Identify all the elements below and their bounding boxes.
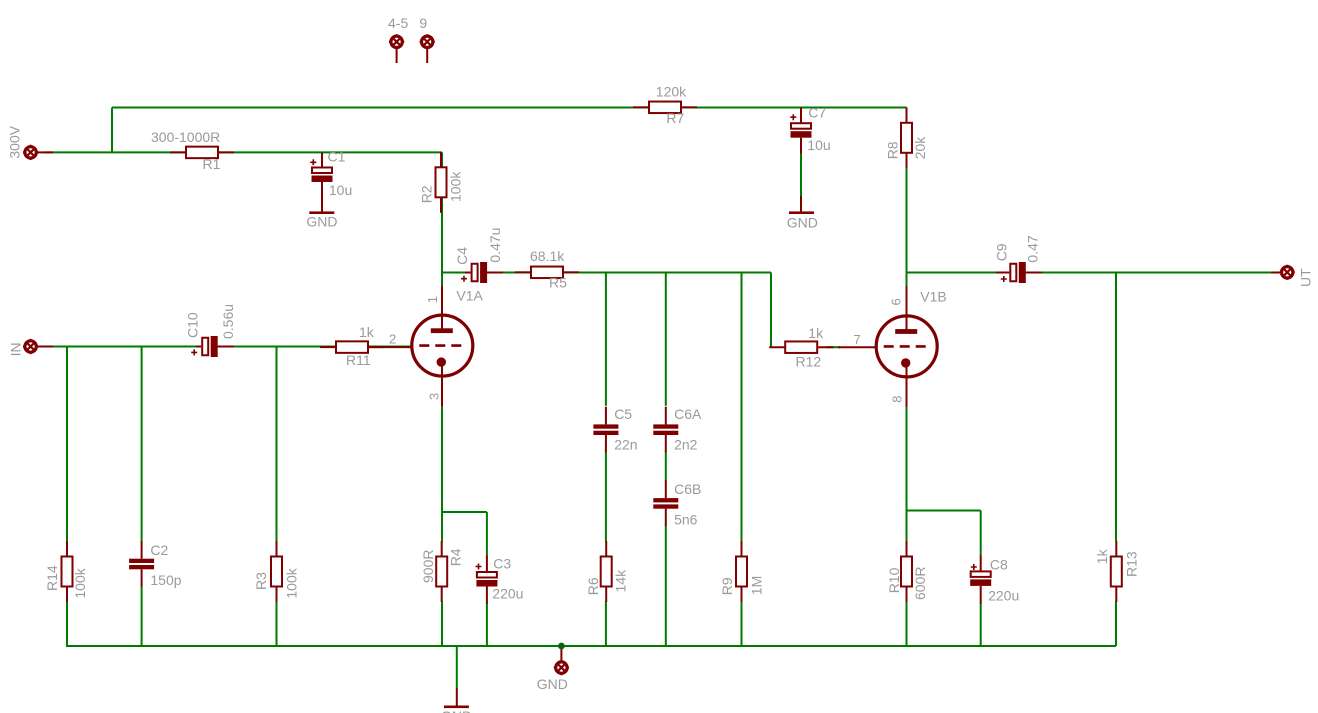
svg-text:22n: 22n (614, 437, 637, 453)
svg-text:C5: C5 (614, 406, 632, 422)
svg-text:1M: 1M (749, 576, 765, 595)
svg-text:IN: IN (8, 342, 24, 356)
svg-text:R12: R12 (796, 353, 822, 369)
svg-text:2: 2 (389, 332, 396, 347)
svg-text:1: 1 (425, 296, 440, 303)
svg-text:R10: R10 (886, 567, 902, 593)
svg-text:4-5: 4-5 (388, 15, 408, 31)
svg-text:1k: 1k (359, 324, 375, 340)
svg-text:R14: R14 (44, 565, 60, 591)
svg-text:R6: R6 (585, 577, 601, 595)
svg-text:C6A: C6A (674, 406, 702, 422)
svg-text:C8: C8 (990, 557, 1008, 573)
svg-text:GND: GND (306, 214, 337, 230)
svg-text:600R: 600R (912, 567, 928, 600)
svg-text:0.56u: 0.56u (220, 304, 236, 339)
svg-text:C4: C4 (454, 247, 470, 265)
svg-text:10u: 10u (807, 137, 830, 153)
svg-text:220u: 220u (988, 588, 1019, 604)
svg-text:UT: UT (1298, 268, 1314, 287)
svg-text:0.47u: 0.47u (487, 228, 503, 263)
svg-text:R1: R1 (203, 156, 221, 172)
svg-text:300V: 300V (7, 125, 23, 158)
svg-text:C2: C2 (150, 542, 168, 558)
svg-text:5n6: 5n6 (674, 511, 698, 527)
svg-text:GND: GND (441, 708, 472, 713)
svg-text:68.1k: 68.1k (530, 248, 565, 264)
svg-text:R11: R11 (346, 352, 371, 368)
svg-text:V1A: V1A (456, 288, 483, 304)
svg-text:C9: C9 (994, 243, 1010, 261)
svg-text:R8: R8 (885, 141, 901, 159)
svg-text:2n2: 2n2 (674, 437, 698, 453)
svg-text:100k: 100k (448, 171, 464, 202)
svg-text:3: 3 (427, 393, 442, 400)
svg-text:14k: 14k (613, 569, 629, 593)
svg-text:220u: 220u (492, 586, 523, 602)
svg-text:9: 9 (419, 15, 427, 31)
svg-text:300-1000R: 300-1000R (151, 129, 220, 145)
svg-text:R2: R2 (419, 185, 435, 203)
svg-text:C6B: C6B (674, 481, 701, 497)
svg-text:GND: GND (537, 676, 568, 692)
svg-text:10u: 10u (329, 182, 352, 198)
svg-text:V1B: V1B (920, 289, 946, 305)
svg-text:900R: 900R (420, 550, 436, 583)
svg-text:0.47: 0.47 (1025, 235, 1041, 262)
svg-text:R9: R9 (719, 577, 735, 595)
svg-text:1k: 1k (1094, 548, 1110, 564)
svg-text:R5: R5 (549, 275, 567, 291)
svg-text:150p: 150p (150, 572, 181, 588)
svg-text:R3: R3 (253, 572, 269, 590)
svg-text:100k: 100k (284, 567, 300, 598)
svg-text:20k: 20k (912, 136, 928, 160)
svg-text:8: 8 (890, 396, 905, 403)
svg-text:R7: R7 (666, 110, 684, 126)
svg-text:C10: C10 (185, 312, 201, 338)
svg-text:R13: R13 (1124, 551, 1140, 577)
svg-text:1k: 1k (808, 325, 824, 341)
svg-text:C7: C7 (808, 105, 826, 121)
svg-text:C3: C3 (493, 555, 511, 571)
svg-text:7: 7 (854, 332, 861, 347)
svg-text:120k: 120k (656, 84, 687, 100)
svg-text:GND: GND (787, 215, 818, 231)
svg-text:6: 6 (889, 298, 904, 305)
svg-text:100k: 100k (72, 567, 88, 598)
svg-text:C1: C1 (328, 149, 346, 165)
svg-text:R4: R4 (448, 548, 464, 566)
